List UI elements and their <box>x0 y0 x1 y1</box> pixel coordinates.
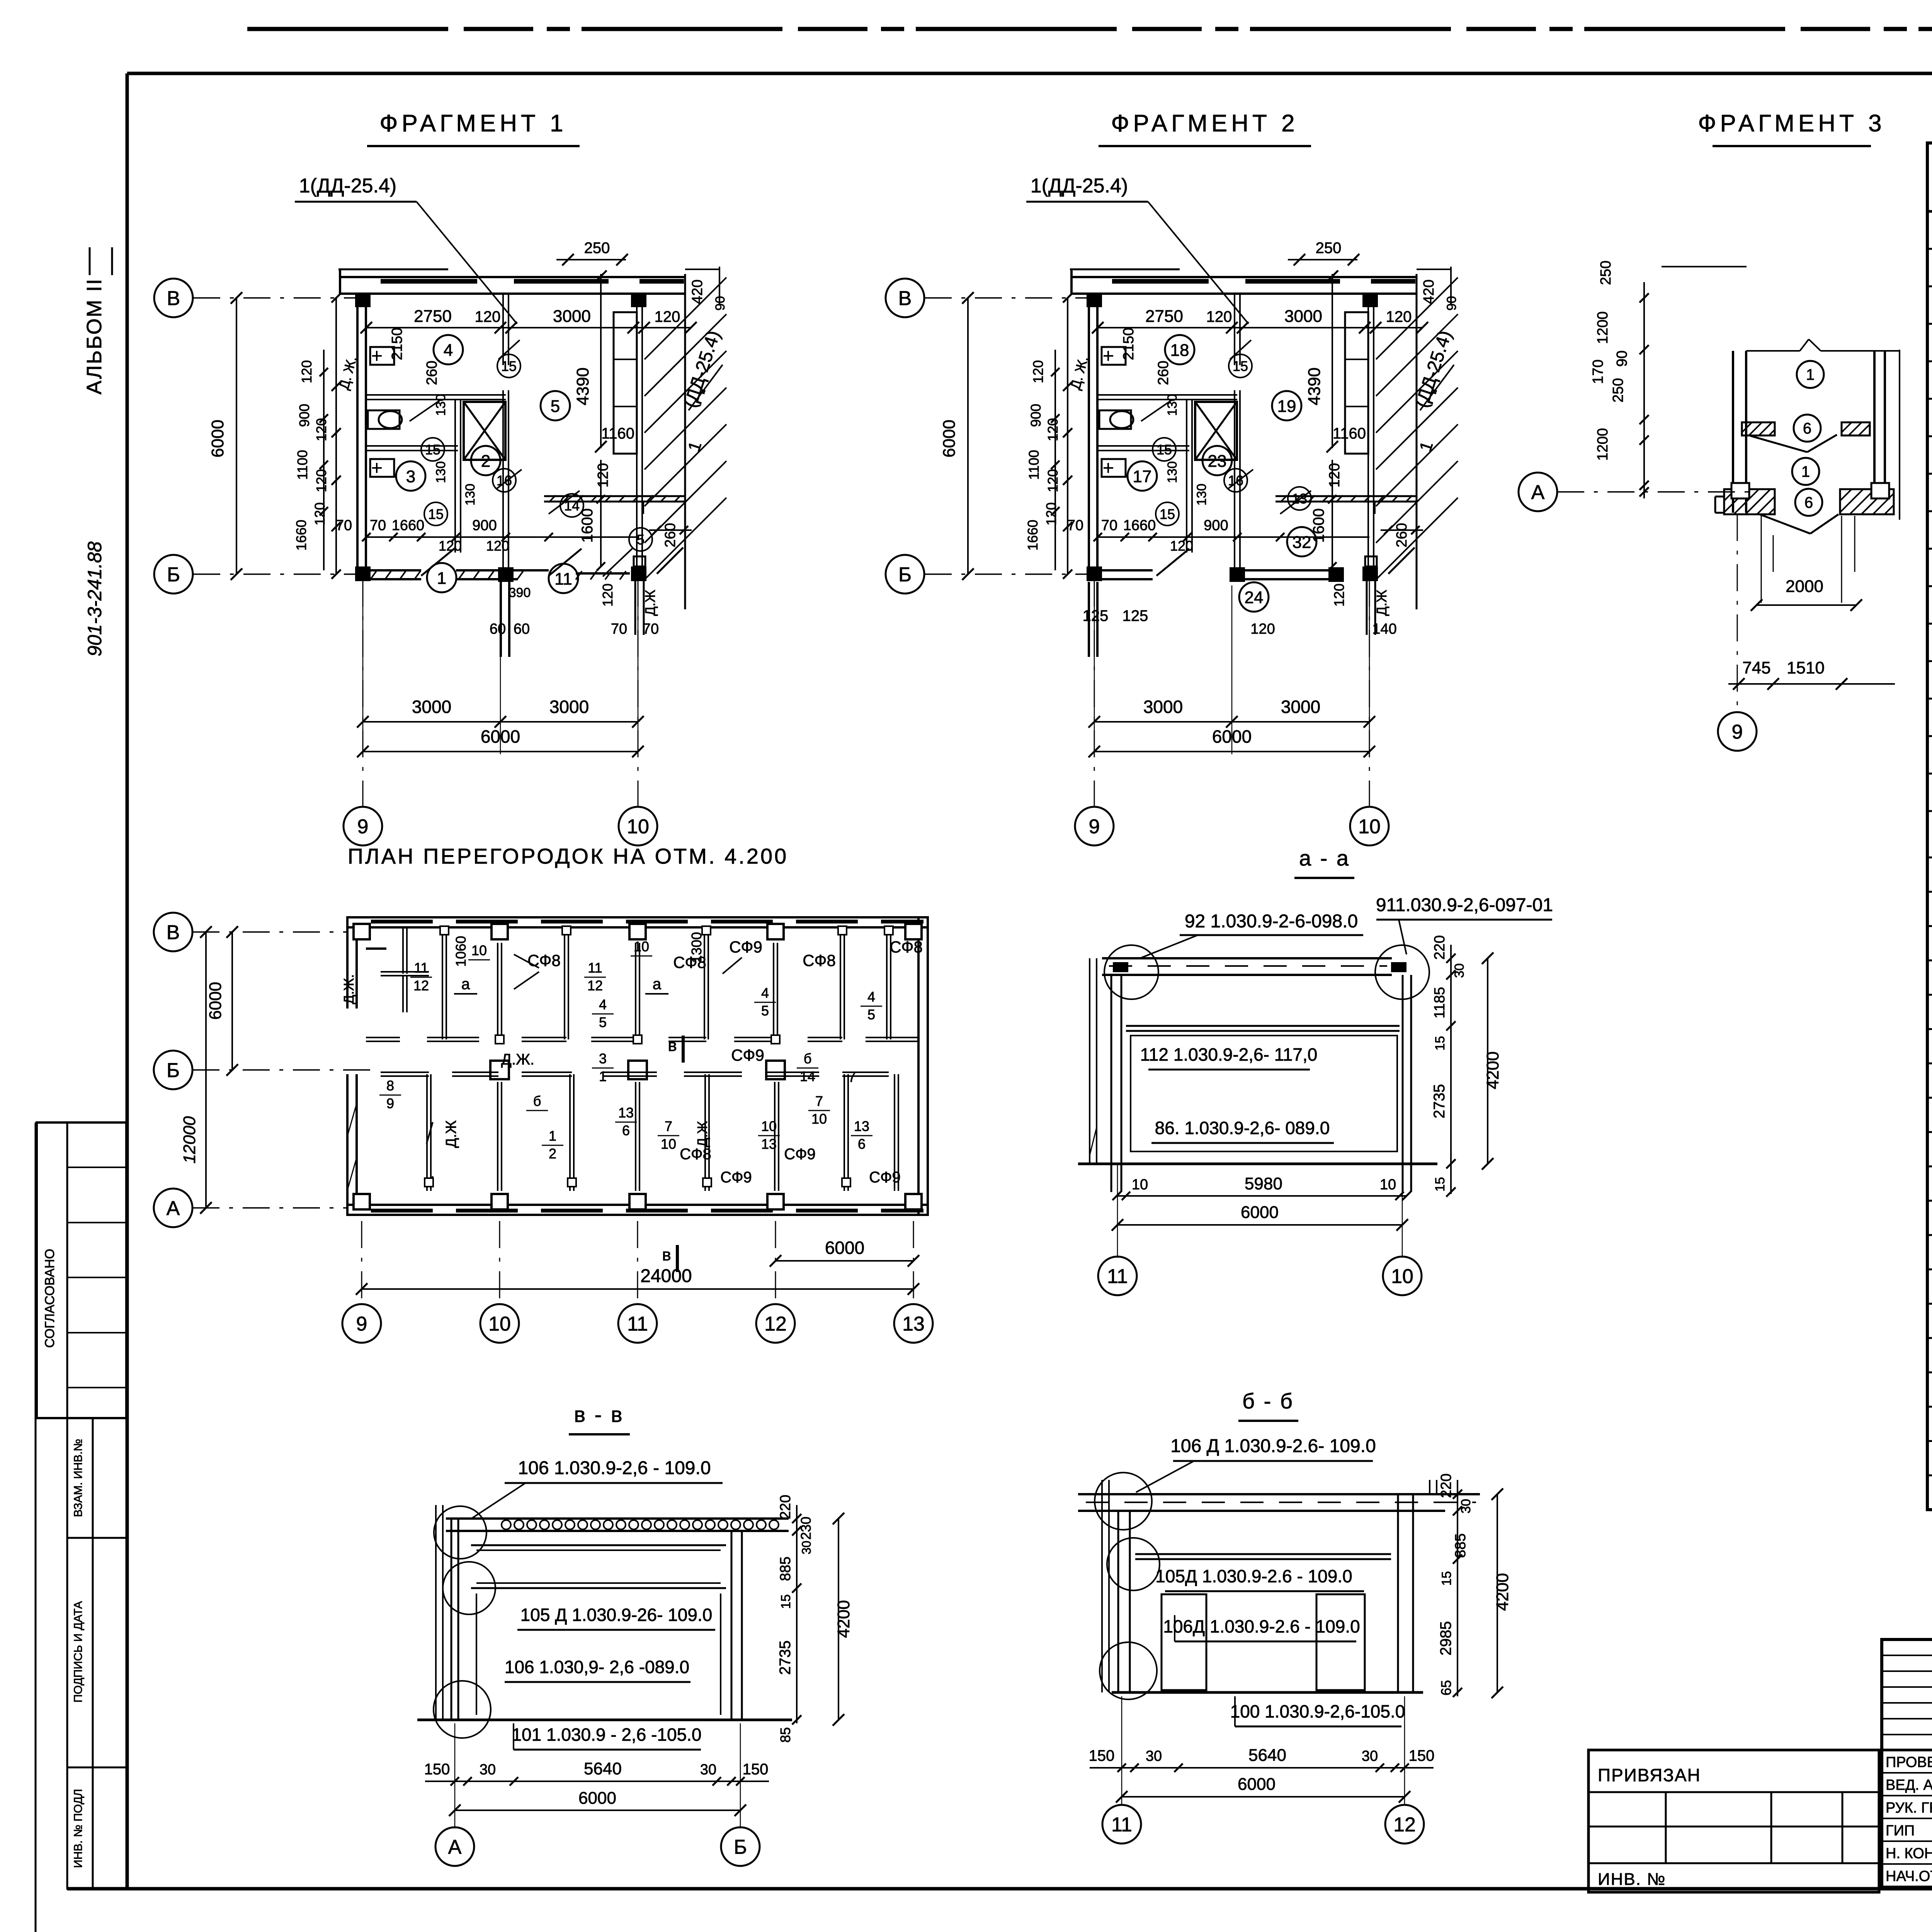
svg-text:1: 1 <box>684 439 705 454</box>
svg-text:1: 1 <box>599 1068 607 1084</box>
svg-text:17: 17 <box>1133 467 1152 486</box>
svg-text:24000: 24000 <box>640 1266 692 1286</box>
svg-text:120: 120 <box>1045 418 1061 441</box>
svg-text:АЛЬБОМ II: АЛЬБОМ II <box>83 278 106 395</box>
spec table rows part 2 <box>1927 891 1932 893</box>
svg-text:1: 1 <box>1806 366 1815 383</box>
svg-text:30: 30 <box>1146 1748 1162 1764</box>
svg-text:900: 900 <box>1028 404 1044 427</box>
svg-text:9: 9 <box>1089 816 1100 838</box>
svg-text:б: б <box>804 1051 812 1066</box>
svg-text:А: А <box>448 1836 462 1859</box>
svg-text:130: 130 <box>434 394 448 416</box>
svg-text:120: 120 <box>1250 621 1275 637</box>
svg-text:120: 120 <box>1043 502 1059 526</box>
svg-text:130: 130 <box>434 461 448 483</box>
svg-text:65: 65 <box>1438 1680 1454 1696</box>
inv n podl cell <box>67 1767 126 1889</box>
svg-text:10: 10 <box>761 1118 777 1134</box>
svg-text:11: 11 <box>554 570 572 588</box>
svg-text:Б: Б <box>898 564 912 586</box>
svg-text:2: 2 <box>549 1146 556 1162</box>
svg-text:90: 90 <box>1444 296 1459 311</box>
svg-text:2: 2 <box>481 452 490 471</box>
svg-text:70: 70 <box>643 621 659 637</box>
svg-text:ГИП: ГИП <box>1886 1823 1915 1839</box>
svg-text:10: 10 <box>1380 1177 1396 1193</box>
svg-text:90: 90 <box>713 296 728 311</box>
svg-text:150: 150 <box>424 1761 450 1778</box>
svg-text:11: 11 <box>414 960 428 976</box>
svg-text:12: 12 <box>1393 1814 1416 1836</box>
svg-text:85: 85 <box>777 1727 793 1743</box>
svg-text:В: В <box>167 287 180 310</box>
svg-text:ФРАГМЕНТ 1: ФРАГМЕНТ 1 <box>379 110 567 137</box>
svg-text:70: 70 <box>611 621 627 637</box>
svg-text:1185: 1185 <box>1432 987 1448 1019</box>
svg-text:6000: 6000 <box>825 1238 864 1258</box>
svg-text:СФ8: СФ8 <box>889 938 923 956</box>
svg-text:ПЛАН ПЕРЕГОРОДОК НА ОТМ. 4: ПЛАН ПЕРЕГОРОДОК НА ОТМ. 4.200 <box>348 844 789 868</box>
svg-text:120: 120 <box>1045 469 1061 492</box>
svg-text:Б: Б <box>167 1060 180 1082</box>
svg-text:90: 90 <box>1614 350 1630 367</box>
svg-text:3000: 3000 <box>549 697 589 717</box>
svg-text:13: 13 <box>618 1105 634 1121</box>
svg-text:5980: 5980 <box>1245 1174 1282 1193</box>
svg-text:СФ9: СФ9 <box>784 1146 816 1163</box>
svg-text:30: 30 <box>799 1541 813 1554</box>
svg-text:120: 120 <box>1030 360 1046 383</box>
svg-text:106 Д 1.030.9-2.6- 109.0: 106 Д 1.030.9-2.6- 109.0 <box>1170 1436 1376 1456</box>
svg-text:120: 120 <box>486 538 509 554</box>
svg-text:5: 5 <box>867 1007 875 1022</box>
svg-text:2735: 2735 <box>777 1641 794 1675</box>
svg-text:150: 150 <box>743 1761 769 1778</box>
svg-text:900: 900 <box>296 404 312 427</box>
svg-text:120: 120 <box>600 583 616 607</box>
svg-text:ВЗАМ. ИНВ.№: ВЗАМ. ИНВ.№ <box>72 1439 85 1517</box>
svg-text:2150: 2150 <box>389 328 405 361</box>
svg-text:8: 8 <box>386 1078 394 1094</box>
svg-text:ИНВ. № ПОДЛ: ИНВ. № ПОДЛ <box>72 1789 85 1868</box>
svg-text:1200: 1200 <box>1595 428 1611 461</box>
svg-text:112 1.030.9-2,6- 117,0: 112 1.030.9-2,6- 117,0 <box>1140 1044 1318 1065</box>
svg-text:12: 12 <box>413 978 429 993</box>
svg-text:6000: 6000 <box>1241 1203 1279 1222</box>
svg-text:1160: 1160 <box>601 425 634 442</box>
svg-text:Б: Б <box>734 1836 747 1859</box>
svg-text:10: 10 <box>1391 1265 1413 1288</box>
svg-text:120: 120 <box>1331 583 1347 607</box>
svg-text:Д. Ж.: Д. Ж. <box>1067 354 1091 391</box>
svg-text:1: 1 <box>437 569 446 588</box>
svg-text:220: 220 <box>1438 1473 1454 1498</box>
svg-text:170: 170 <box>1590 359 1606 384</box>
svg-text:4: 4 <box>867 989 875 1005</box>
svg-text:30: 30 <box>480 1762 496 1778</box>
svg-text:6: 6 <box>622 1122 630 1138</box>
svg-text:106 1.030.9-2,6 - 109.0: 106 1.030.9-2,6 - 109.0 <box>518 1458 711 1478</box>
svg-text:911.030.9-2,6-097-01: 911.030.9-2,6-097-01 <box>1376 895 1553 915</box>
svg-text:4390: 4390 <box>573 367 592 405</box>
svg-text:Д.Ж.: Д.Ж. <box>501 1051 534 1068</box>
svg-text:4200: 4200 <box>834 1600 853 1638</box>
svg-text:б: б <box>533 1093 541 1109</box>
svg-text:б - б: б - б <box>1242 1389 1294 1413</box>
central plan <box>346 916 929 918</box>
svg-text:260: 260 <box>662 523 679 547</box>
svg-text:1: 1 <box>1416 439 1437 454</box>
svg-text:250: 250 <box>1316 240 1342 257</box>
svg-text:СОГЛАСОВАНО: СОГЛАСОВАНО <box>43 1249 57 1348</box>
svg-text:120: 120 <box>1386 308 1412 325</box>
svg-text:5: 5 <box>637 532 645 548</box>
svg-text:70: 70 <box>1067 517 1083 534</box>
svg-text:150: 150 <box>1409 1747 1435 1764</box>
svg-text:101 1.030.9 - 2,6 -105.0: 101 1.030.9 - 2,6 -105.0 <box>512 1725 701 1745</box>
svg-text:4200: 4200 <box>1493 1573 1512 1611</box>
svg-text:220: 220 <box>1432 935 1448 959</box>
svg-text:Д.Ж: Д.Ж <box>1374 590 1389 616</box>
svg-text:ПРИВЯЗАН: ПРИВЯЗАН <box>1598 1765 1701 1785</box>
svg-text:13: 13 <box>902 1313 925 1335</box>
svg-text:4: 4 <box>761 985 769 1001</box>
svg-text:70: 70 <box>370 517 386 534</box>
svg-text:15: 15 <box>1160 506 1175 522</box>
svg-text:7: 7 <box>848 1069 856 1085</box>
svg-text:885: 885 <box>1452 1533 1469 1558</box>
svg-text:24: 24 <box>1245 588 1264 607</box>
svg-text:60: 60 <box>490 621 506 637</box>
svg-text:32: 32 <box>1293 533 1311 552</box>
svg-text:120: 120 <box>313 418 329 441</box>
svg-text:1200: 1200 <box>1595 311 1611 344</box>
svg-text:120: 120 <box>1170 538 1193 554</box>
duct hatch slashes <box>1376 277 1458 359</box>
svg-text:ФРАГМЕНТ 2: ФРАГМЕНТ 2 <box>1111 110 1298 137</box>
svg-text:2735: 2735 <box>1431 1084 1448 1119</box>
svg-text:230: 230 <box>798 1517 814 1540</box>
svg-text:5: 5 <box>599 1014 607 1030</box>
svg-text:1060: 1060 <box>453 936 469 967</box>
svg-text:В: В <box>167 922 180 944</box>
svg-text:(ДД-25.4): (ДД-25.4) <box>1412 328 1456 410</box>
svg-text:130: 130 <box>1194 484 1209 506</box>
svg-text:120: 120 <box>595 463 611 487</box>
svg-text:12: 12 <box>764 1313 787 1335</box>
svg-text:130: 130 <box>463 484 478 506</box>
svg-text:11: 11 <box>1111 1814 1132 1836</box>
svg-text:Д. Ж.: Д. Ж. <box>336 354 360 391</box>
svg-text:106 1.030,9- 2,6 -089.0: 106 1.030,9- 2,6 -089.0 <box>505 1657 689 1677</box>
svg-text:11: 11 <box>588 960 602 976</box>
svg-text:3000: 3000 <box>553 307 591 326</box>
svg-text:2000: 2000 <box>1786 577 1823 596</box>
svg-text:100 1.030.9-2,6-105.0: 100 1.030.9-2,6-105.0 <box>1230 1701 1405 1721</box>
svg-text:9: 9 <box>356 1313 367 1335</box>
svg-text:10: 10 <box>627 816 649 838</box>
svg-text:СФ9: СФ9 <box>720 1169 752 1186</box>
svg-text:Д.Ж: Д.Ж <box>443 1120 459 1148</box>
svg-text:СФ9: СФ9 <box>729 938 762 956</box>
svg-text:в: в <box>668 1036 677 1055</box>
svg-text:в - в: в - в <box>574 1402 624 1427</box>
svg-text:120: 120 <box>439 538 462 554</box>
svg-text:105 Д 1.030.9-26- 109.0: 105 Д 1.030.9-26- 109.0 <box>520 1605 713 1625</box>
svg-text:15: 15 <box>1439 1571 1454 1586</box>
svg-text:НАЧ.ОТД: НАЧ.ОТД <box>1886 1868 1932 1884</box>
spec table rows part 1 <box>1927 248 1932 250</box>
svg-text:745: 745 <box>1742 658 1770 677</box>
svg-text:15: 15 <box>1433 1177 1447 1192</box>
svg-text:30: 30 <box>700 1762 716 1778</box>
svg-text:ИНВ. №: ИНВ. № <box>1598 1870 1666 1889</box>
svg-text:260: 260 <box>1155 361 1172 385</box>
svg-text:Д.Ж: Д.Ж <box>694 1121 710 1147</box>
svg-text:125: 125 <box>1122 607 1148 624</box>
svg-text:150: 150 <box>1089 1747 1115 1764</box>
svg-text:ФРАГМЕНТ 3: ФРАГМЕНТ 3 <box>1698 110 1885 137</box>
svg-text:420: 420 <box>1421 279 1437 304</box>
svg-text:10: 10 <box>1358 816 1381 838</box>
spec table grid <box>1927 143 1932 1510</box>
svg-text:15: 15 <box>779 1594 793 1609</box>
svg-text:260: 260 <box>1394 523 1410 547</box>
svg-text:120: 120 <box>313 469 329 492</box>
svg-text:РУК. ГР.: РУК. ГР. <box>1886 1800 1932 1816</box>
svg-text:А: А <box>1531 481 1545 504</box>
svg-text:86. 1.030.9-2,6- 089.0: 86. 1.030.9-2,6- 089.0 <box>1155 1118 1330 1138</box>
podpis i data cell <box>67 1538 126 1767</box>
svg-text:19: 19 <box>1277 397 1296 416</box>
svg-text:1: 1 <box>549 1128 556 1144</box>
svg-text:СФ8: СФ8 <box>680 1146 711 1163</box>
svg-text:Д.Ж: Д.Ж <box>642 590 658 616</box>
svg-text:70: 70 <box>336 517 352 534</box>
svg-text:30: 30 <box>1452 963 1467 978</box>
svg-text:1160: 1160 <box>1333 425 1366 442</box>
svg-text:30: 30 <box>1459 1499 1473 1514</box>
svg-text:1(ДД-25.4): 1(ДД-25.4) <box>1031 175 1128 197</box>
title block: main stamp <box>1882 1639 1932 1887</box>
svg-text:1660: 1660 <box>1025 520 1041 551</box>
svg-text:4200: 4200 <box>1483 1051 1502 1089</box>
svg-text:15: 15 <box>1156 442 1172 457</box>
svg-text:а - а: а - а <box>1299 846 1350 870</box>
svg-text:125: 125 <box>1083 607 1109 624</box>
svg-text:10: 10 <box>1132 1177 1148 1193</box>
svg-text:6: 6 <box>858 1136 866 1152</box>
svg-text:СФ8: СФ8 <box>527 951 561 969</box>
svg-text:106Д 1.030.9-2.6 - 109.0: 106Д 1.030.9-2.6 - 109.0 <box>1163 1616 1360 1636</box>
svg-text:6000: 6000 <box>578 1789 616 1808</box>
svg-text:13: 13 <box>761 1136 777 1152</box>
svg-text:5640: 5640 <box>584 1759 622 1778</box>
svg-text:1660: 1660 <box>1123 517 1156 534</box>
svg-text:в: в <box>662 1245 671 1264</box>
svg-text:250: 250 <box>584 240 610 257</box>
svg-text:2750: 2750 <box>1145 307 1183 326</box>
svg-text:2985: 2985 <box>1437 1621 1454 1656</box>
svg-text:60: 60 <box>514 621 530 637</box>
svg-text:11: 11 <box>627 1313 648 1335</box>
svg-text:3: 3 <box>599 1051 607 1066</box>
svg-text:7: 7 <box>665 1118 672 1134</box>
svg-text:Б: Б <box>167 564 180 586</box>
svg-text:4: 4 <box>599 997 607 1012</box>
svg-text:15: 15 <box>428 506 444 522</box>
svg-text:6000: 6000 <box>1212 726 1252 747</box>
svg-text:92 1.030.9-2-6-098.0: 92 1.030.9-2-6-098.0 <box>1185 911 1358 932</box>
svg-text:ВЕД. АРХ.: ВЕД. АРХ. <box>1886 1777 1932 1793</box>
soglasovano table <box>37 1122 126 1418</box>
svg-text:9: 9 <box>386 1095 394 1111</box>
svg-text:901-3-241.88: 901-3-241.88 <box>84 541 105 656</box>
svg-text:900: 900 <box>1204 517 1228 534</box>
svg-text:390: 390 <box>509 585 531 600</box>
svg-text:5640: 5640 <box>1248 1746 1286 1765</box>
svg-text:11: 11 <box>1107 1265 1128 1288</box>
svg-text:9: 9 <box>357 816 369 838</box>
svg-text:900: 900 <box>472 517 497 534</box>
svg-text:Д.Ж.: Д.Ж. <box>341 974 357 1004</box>
svg-text:16: 16 <box>497 473 512 488</box>
svg-text:120: 120 <box>299 360 315 383</box>
svg-text:6000: 6000 <box>1238 1775 1276 1794</box>
svg-text:15: 15 <box>1433 1036 1447 1051</box>
svg-text:15: 15 <box>501 358 517 374</box>
svg-text:1100: 1100 <box>1026 450 1042 480</box>
svg-text:3000: 3000 <box>412 697 451 717</box>
svg-text:7: 7 <box>815 1093 823 1109</box>
svg-text:(ДД-25.4): (ДД-25.4) <box>680 328 724 410</box>
svg-text:СФ9: СФ9 <box>731 1046 764 1064</box>
svg-text:В: В <box>898 287 912 310</box>
svg-text:9: 9 <box>1732 721 1743 743</box>
svg-text:130: 130 <box>1165 394 1180 416</box>
svg-text:1300: 1300 <box>689 932 704 963</box>
svg-text:18: 18 <box>1170 341 1189 360</box>
svg-text:5: 5 <box>761 1003 769 1019</box>
svg-text:885: 885 <box>777 1556 794 1581</box>
svg-text:220: 220 <box>777 1495 794 1519</box>
svg-text:ПРОВЕР.: ПРОВЕР. <box>1886 1754 1932 1770</box>
main frame <box>127 72 1932 75</box>
vzam inv cell <box>67 1418 126 1538</box>
svg-text:10: 10 <box>634 939 649 954</box>
svg-text:16: 16 <box>1228 473 1243 488</box>
svg-text:13: 13 <box>854 1118 869 1134</box>
svg-text:6000: 6000 <box>940 420 959 457</box>
svg-text:2750: 2750 <box>414 307 452 326</box>
svg-text:14: 14 <box>800 1068 815 1084</box>
svg-text:3000: 3000 <box>1281 697 1320 717</box>
svg-text:30: 30 <box>1362 1748 1378 1764</box>
svg-text:10: 10 <box>488 1313 511 1335</box>
svg-text:1660: 1660 <box>392 517 425 534</box>
svg-text:120: 120 <box>1206 308 1232 325</box>
svg-text:6: 6 <box>1804 494 1813 511</box>
svg-text:1100: 1100 <box>294 450 310 480</box>
svg-text:420: 420 <box>689 279 706 304</box>
svg-text:3000: 3000 <box>1143 697 1183 717</box>
svg-text:ПОДПИСЬ И ДАТА: ПОДПИСЬ И ДАТА <box>72 1601 85 1703</box>
svg-text:1510: 1510 <box>1787 658 1825 677</box>
svg-text:15: 15 <box>1233 358 1248 374</box>
svg-text:2150: 2150 <box>1121 328 1137 361</box>
svg-text:6: 6 <box>1803 420 1811 437</box>
svg-text:140: 140 <box>1372 621 1396 637</box>
svg-text:А: А <box>167 1197 180 1220</box>
svg-text:120: 120 <box>475 308 501 325</box>
svg-text:250: 250 <box>1610 378 1626 402</box>
svg-text:а: а <box>653 976 662 993</box>
svg-text:6000: 6000 <box>206 982 225 1020</box>
svg-text:120: 120 <box>1327 463 1343 487</box>
svg-text:1(ДД-25.4): 1(ДД-25.4) <box>299 175 397 197</box>
svg-text:СФ9: СФ9 <box>869 1169 901 1186</box>
svg-text:105Д 1.030.9-2.6 - 109.0: 105Д 1.030.9-2.6 - 109.0 <box>1155 1566 1352 1586</box>
svg-text:130: 130 <box>1165 461 1180 483</box>
svg-text:4: 4 <box>444 341 453 360</box>
svg-text:120: 120 <box>312 502 328 526</box>
sheet outer edge (dashed scan border) <box>247 27 1932 31</box>
svg-text:15: 15 <box>425 442 440 457</box>
svg-text:70: 70 <box>1101 517 1117 534</box>
svg-text:12: 12 <box>587 978 603 993</box>
title block: privyazan table <box>1588 1750 1879 1892</box>
svg-text:10: 10 <box>471 942 487 958</box>
svg-text:4390: 4390 <box>1305 367 1324 405</box>
svg-text:а: а <box>461 976 470 993</box>
svg-text:1660: 1660 <box>293 520 309 551</box>
svg-text:10: 10 <box>811 1111 827 1127</box>
svg-text:1: 1 <box>1801 463 1810 480</box>
svg-text:260: 260 <box>424 361 440 385</box>
svg-text:12000: 12000 <box>180 1116 199 1163</box>
svg-text:23: 23 <box>1208 452 1227 471</box>
duct hatch slashes <box>645 277 726 359</box>
svg-text:СФ8: СФ8 <box>803 951 836 969</box>
svg-text:6000: 6000 <box>208 420 227 457</box>
svg-text:250: 250 <box>1598 260 1614 285</box>
svg-text:5: 5 <box>551 397 560 416</box>
svg-text:6000: 6000 <box>481 726 520 747</box>
svg-text:Н. КОНТР.: Н. КОНТР. <box>1886 1845 1932 1862</box>
svg-text:120: 120 <box>655 308 680 325</box>
svg-text:3: 3 <box>406 467 415 486</box>
svg-text:3000: 3000 <box>1284 307 1322 326</box>
svg-text:10: 10 <box>661 1136 676 1152</box>
